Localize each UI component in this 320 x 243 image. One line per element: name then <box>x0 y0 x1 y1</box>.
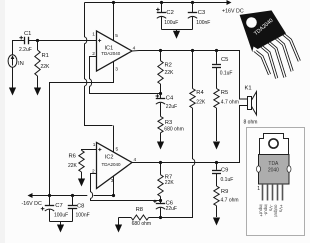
svg-text:C2: C2 <box>166 10 173 16</box>
op-amp IC1 TDA2040 <box>97 31 133 71</box>
node IN source <box>8 55 17 68</box>
resistor R2 22K <box>159 49 162 52</box>
resistor R1 22K <box>36 39 39 42</box>
capacitor C7 100uF <box>49 196 51 206</box>
capacitor C2 100uF <box>160 1 163 4</box>
resistor R6 22K pin1 to ground <box>82 149 97 152</box>
svg-text:input+: input+ <box>258 205 263 218</box>
svg-text:4: 4 <box>133 46 136 52</box>
pin 3 wire IC2 <box>113 176 115 196</box>
svg-text:2040: 2040 <box>268 167 279 173</box>
svg-text:5: 5 <box>115 33 118 39</box>
svg-text:C5: C5 <box>221 57 228 63</box>
svg-text:1: 1 <box>93 142 96 148</box>
diagram TDA2040 pinout box <box>247 128 305 236</box>
svg-text:22uF: 22uF <box>166 104 177 110</box>
svg-text:4: 4 <box>134 157 137 163</box>
node rail junctions <box>48 194 51 197</box>
svg-text:C1: C1 <box>24 31 31 37</box>
svg-text:C8: C8 <box>77 204 84 210</box>
wire -16V bottom rail <box>28 193 33 198</box>
svg-text:22K: 22K <box>165 180 175 186</box>
svg-text:1: 1 <box>257 186 260 192</box>
pinout pins <box>262 184 264 201</box>
resistor R8 680 ohm <box>119 217 132 219</box>
svg-text:5: 5 <box>116 147 119 153</box>
svg-text:680 ohm: 680 ohm <box>132 221 151 227</box>
svg-text:22K: 22K <box>165 70 175 76</box>
svg-text:C3: C3 <box>198 10 205 16</box>
wire C7 C8 bottoms + ground <box>50 222 73 225</box>
pin 2 wire IC2 <box>91 174 161 201</box>
resistor R3 680 ohm <box>158 116 163 132</box>
svg-text:R6: R6 <box>69 154 76 160</box>
svg-text:C9: C9 <box>221 168 228 174</box>
svg-text:R4: R4 <box>196 90 204 96</box>
svg-text:+16V DC: +16V DC <box>222 8 244 14</box>
svg-text:R9: R9 <box>221 189 228 195</box>
svg-text:R3: R3 <box>165 120 172 126</box>
pin 5 wire IC1 <box>113 3 115 41</box>
svg-text:R1: R1 <box>42 53 49 59</box>
svg-text:output: output <box>273 205 278 218</box>
pin 3 wire IC1 <box>50 61 114 195</box>
svg-text:2.2uF: 2.2uF <box>19 47 32 53</box>
node +16V rail arrow terminal <box>227 0 232 5</box>
svg-text:R8: R8 <box>136 207 143 213</box>
svg-text:TDA: TDA <box>268 161 279 167</box>
svg-text:22K: 22K <box>41 64 51 70</box>
svg-text:TDA2040: TDA2040 <box>102 162 122 167</box>
svg-text:+Vs: +Vs <box>278 205 283 213</box>
svg-text:1: 1 <box>92 32 95 38</box>
svg-text:0.1uF: 0.1uF <box>220 71 233 77</box>
node feedback junction <box>159 92 162 95</box>
svg-text:-16V DC: -16V DC <box>22 201 42 207</box>
svg-text:TDA2040: TDA2040 <box>101 51 121 56</box>
svg-text:2: 2 <box>92 51 95 57</box>
resistor R5 4.7 ohm <box>214 89 219 109</box>
resistor R7 22K <box>159 161 162 164</box>
svg-text:680 ohm: 680 ohm <box>164 127 183 133</box>
resistor R9 4.7 ohm <box>214 186 219 206</box>
capacitor C1 2.2uF <box>25 37 29 44</box>
svg-text:4.7 ohm: 4.7 ohm <box>221 198 239 204</box>
capacitor C9 0.1uF <box>215 161 218 164</box>
resistor R4 22K <box>191 49 194 52</box>
svg-text:R5: R5 <box>221 90 228 96</box>
capacitor C3 100nF <box>191 1 194 4</box>
svg-text:input-: input- <box>263 205 268 217</box>
svg-text:3: 3 <box>115 67 118 73</box>
pin 4 output wire IC1 <box>132 51 248 100</box>
svg-text:8 ohm: 8 ohm <box>244 119 258 125</box>
capacitor C8 100nF <box>72 196 74 206</box>
pinout body <box>259 155 290 185</box>
svg-text:C4: C4 <box>166 95 174 101</box>
svg-text:IN: IN <box>18 61 24 67</box>
capacitor C4 22uF <box>160 94 162 99</box>
svg-text:100nF: 100nF <box>196 20 210 26</box>
svg-text:100nF: 100nF <box>76 213 90 219</box>
pin 4 output wire IC2 <box>132 106 240 163</box>
capacitor C6 22uF <box>160 201 162 204</box>
capacitor C5 0.1uF <box>215 49 218 52</box>
wire +16V top rail <box>85 2 227 4</box>
svg-text:K1: K1 <box>245 86 252 92</box>
svg-text:4.7 ohm: 4.7 ohm <box>221 99 239 105</box>
svg-text:22K: 22K <box>196 99 206 105</box>
svg-text:IC2: IC2 <box>105 154 114 160</box>
svg-text:C7: C7 <box>55 203 62 209</box>
op-amp IC2 TDA2040 <box>97 143 133 189</box>
transistor-package TDA2040 TO-220 illustration <box>240 10 300 78</box>
wire input line <box>13 41 97 55</box>
svg-text:22K: 22K <box>68 163 78 169</box>
ground IN <box>12 67 14 88</box>
wire C2 C3 bottoms + ground <box>162 30 193 32</box>
svg-text:0.1uF: 0.1uF <box>221 177 234 183</box>
svg-text:22uF: 22uF <box>166 206 177 212</box>
svg-text:R2: R2 <box>165 63 172 69</box>
svg-text:-Vs: -Vs <box>268 205 273 212</box>
svg-text:100uF: 100uF <box>54 213 68 219</box>
pin 2 wire IC1 <box>90 57 161 94</box>
wire +16V drop to IC2 pin5 with hops <box>85 3 114 152</box>
svg-text:100uF: 100uF <box>164 20 178 26</box>
pinout tab <box>260 134 289 155</box>
